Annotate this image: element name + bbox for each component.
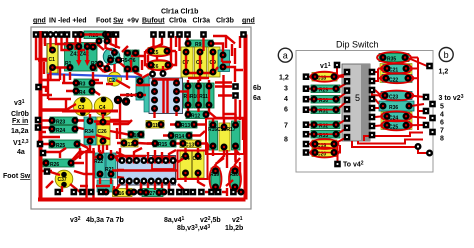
svg-text:R35: R35 (387, 57, 396, 63)
wire x120 long (119, 100, 121, 131)
svg-text:Clr0a: Clr0a (169, 17, 187, 24)
capacitor C6 (148, 62, 171, 71)
resistor R13 (176, 121, 197, 129)
svg-text:8b,v33,v43: 8b,v33,v43 (177, 224, 210, 232)
capacitor C4 (94, 97, 113, 116)
wire y118 right run (214, 117, 244, 119)
resistor R25 (49, 140, 80, 149)
wire top stub IN (44, 35, 46, 47)
wire IC inner loop (152, 157, 174, 169)
resistor R4 (74, 88, 94, 97)
resistor R10 (194, 83, 204, 108)
wire R8 col tops (188, 78, 209, 86)
IC U2 pin pads (119, 157, 177, 185)
wire ring R19 (210, 166, 222, 192)
svg-text:3: 3 (284, 86, 288, 93)
wire clr0a (148, 35, 162, 52)
wire right top (213, 36, 235, 44)
resistor R23 (50, 117, 77, 126)
pad row top edge (33, 31, 247, 38)
capacitor C37 (55, 170, 73, 188)
resistor R17 (208, 121, 240, 150)
svg-text:8: 8 (440, 136, 444, 143)
wire across U1 left y86 (138, 84, 150, 86)
wire mid run y100 (42, 100, 66, 110)
wire diag to IC (113, 155, 124, 178)
svg-text:Foot Sw: Foot Sw (96, 17, 124, 24)
board outline (31, 27, 251, 209)
wire R36 out (411, 104, 426, 111)
capacitor C14 (180, 151, 192, 178)
svg-text:1a,2a: 1a,2a (11, 128, 29, 135)
wire bottom joins (114, 191, 228, 193)
svg-text:C1: C1 (49, 57, 56, 63)
svg-text:R14: R14 (175, 134, 184, 140)
wire y152 run (42, 137, 95, 158)
wire stub x67 (66, 35, 68, 48)
transistor teal block (136, 77, 148, 100)
wire bufout run (152, 35, 154, 51)
wire stub x105 (106, 35, 113, 51)
wire C37 tail (46, 181, 62, 192)
capacitor C21 (383, 65, 410, 74)
svg-text:R24: R24 (56, 128, 65, 134)
wire R9 right (213, 44, 223, 53)
wire right column vertical (417, 58, 419, 131)
wire R25 ends (40, 144, 88, 148)
wire C1 feed (49, 35, 51, 53)
svg-text:Dip Switch: Dip Switch (336, 40, 379, 50)
svg-text:1,2: 1,2 (279, 75, 289, 82)
capacitor C16 (113, 189, 133, 198)
wire -led stub (56, 35, 66, 45)
wire C13 right (201, 144, 208, 151)
wire Q1 lower cluster (96, 64, 112, 72)
capacitor C3 (74, 97, 93, 116)
wire y152 to IC (116, 152, 129, 160)
wire R35 out (407, 58, 427, 67)
pads right of C4 (114, 96, 130, 106)
svg-text:6a: 6a (253, 95, 261, 102)
wire ring C25 (381, 120, 412, 130)
component pads (43, 31, 240, 196)
wire R34 C26 verticals (90, 114, 103, 158)
pad column left of rows (303, 73, 310, 155)
zener Z42 body (85, 49, 91, 66)
wire ground loop left (39, 31, 43, 200)
wire y120 mid (96, 120, 120, 124)
zener Z41 body (76, 49, 82, 66)
wire x48 vertical (48, 74, 71, 99)
yellow backing C24 C25 (381, 112, 412, 130)
svg-text:7: 7 (440, 128, 444, 135)
dip panel outline (296, 51, 433, 173)
svg-text:C26: C26 (98, 129, 107, 135)
wire IC through (112, 169, 178, 171)
capacitor C25 (383, 122, 410, 131)
op-amp U1 footprint (149, 78, 183, 114)
resistor R33 (311, 131, 340, 140)
capacitor C18 (312, 73, 337, 82)
wire R3 R4 left (62, 83, 103, 95)
resistor R3 (74, 79, 94, 88)
svg-text:R15: R15 (158, 142, 167, 148)
wire stub x75 (74, 35, 76, 51)
capacitor C7 (181, 47, 193, 77)
wire R8 col bottoms (188, 105, 216, 118)
svg-text:6b: 6b (253, 85, 261, 92)
svg-text:6: 6 (440, 120, 444, 127)
capacitor teal right of C9 (218, 50, 230, 72)
wire To v4 (337, 143, 339, 161)
resistor R9 (186, 40, 213, 48)
wire left pads column (38, 87, 46, 164)
svg-text:R4: R4 (79, 90, 86, 96)
wire R8 R10 R11 through (188, 86, 209, 105)
wire v1 feed (337, 68, 344, 77)
wire y56 run (131, 56, 145, 76)
svg-text:gnd: gnd (33, 17, 46, 24)
dip body pin pads left (344, 69, 351, 141)
svg-text:Clr3a: Clr3a (193, 17, 211, 24)
transistor Q1 (103, 48, 120, 65)
svg-text:5: 5 (440, 104, 444, 111)
wire y171 run (42, 171, 95, 174)
wire x227 x234 verticals (227, 118, 243, 196)
wire +led stub (62, 35, 71, 51)
wire ring C18 (311, 72, 339, 82)
svg-text:b: b (444, 50, 449, 60)
wire ring C21 (381, 64, 412, 74)
wire stub x80 (80, 35, 85, 51)
capacitor C20 (312, 149, 337, 158)
wire x120 vertical (119, 131, 121, 159)
wire y171 left (49, 172, 80, 193)
wire ring C23 (380, 91, 414, 101)
svg-text:8a,v41: 8a,v41 (164, 216, 185, 224)
resistor R29 (311, 85, 340, 94)
svg-text:To v42: To v42 (343, 161, 364, 169)
wire R19 R20 (216, 158, 241, 193)
wire Q1 branches (84, 44, 128, 52)
wire ring C20 (311, 148, 339, 158)
resistor R27 (142, 189, 163, 198)
pad row bottom edge (55, 189, 245, 196)
wire IC bottom pins (127, 182, 169, 190)
op-amp IC U2 (118, 156, 176, 186)
wire U1 tee (152, 80, 179, 114)
capacitor C2 (108, 72, 122, 86)
resistor R35 (379, 54, 409, 63)
wire C3 C4 through (62, 110, 118, 113)
resistor R14 (169, 132, 192, 140)
wire ring R35 (377, 52, 411, 63)
wire y80 bar (42, 79, 48, 81)
wire y110 bar (42, 108, 66, 111)
svg-text:v22,5b: v22,5b (200, 216, 221, 224)
svg-text:R3: R3 (79, 82, 86, 88)
svg-text:4: 4 (440, 112, 444, 119)
wire C14 C15 pins (186, 148, 206, 186)
wire R22 R21 tops (100, 150, 111, 184)
teal column left of U1 (144, 76, 149, 112)
wire ring C19 (311, 139, 339, 149)
svg-text:R5•R6: R5•R6 (121, 58, 136, 64)
resistor R15 (153, 140, 176, 148)
wire mid diag (42, 95, 76, 132)
svg-text:3 to v23: 3 to v23 (439, 94, 464, 102)
wire R1 R2 bottom (70, 72, 99, 80)
resistor R16 (209, 121, 218, 150)
svg-text:R36: R36 (389, 105, 398, 111)
wire C26 to C12 verticals (99, 128, 117, 152)
svg-text:gnd: gnd (242, 17, 255, 24)
wire R28 link (81, 33, 108, 35)
wire right side verticals (222, 36, 243, 70)
wire bottom right runs (352, 133, 427, 154)
wire ring C14 C15 (178, 151, 208, 180)
wire R16 C10 R17 tops (213, 114, 236, 126)
dip body pin pads right (369, 69, 376, 139)
yellow backing C21 C22 (380, 64, 412, 83)
resistor R24 (50, 126, 77, 135)
capacitor C26 (97, 117, 110, 145)
svg-text:Foot Sw: Foot Sw (3, 173, 31, 180)
wire x226 vertical (224, 36, 241, 120)
wire x171 (170, 35, 172, 66)
wire C7 C8 C9 through (186, 52, 213, 72)
right output pads (415, 63, 436, 157)
wire ring C24 (381, 111, 412, 121)
svg-text:Clr3b: Clr3b (216, 17, 234, 24)
svg-text:5: 5 (355, 93, 360, 103)
svg-text:4b,3a 7a 7b: 4b,3a 7a 7b (86, 217, 124, 224)
resistor R26 (43, 159, 74, 168)
wire right pads 6b 6a (224, 85, 232, 87)
wire C23 out (410, 96, 424, 98)
wire bottom y186 (80, 185, 110, 187)
wire IC bottom stubs (155, 181, 169, 190)
svg-text:C37: C37 (58, 177, 67, 183)
wire C7 C8 bottoms (186, 67, 218, 81)
svg-text:R34: R34 (85, 129, 94, 135)
pads 6b 6a (232, 83, 239, 99)
svg-text:Bufout: Bufout (142, 17, 165, 24)
wire C1 bottom link (53, 66, 71, 68)
resistor block R1 R2 with zeners Z41 Z42 (65, 43, 98, 72)
wire left of R3 verticals (44, 62, 64, 83)
resistor R8 (184, 83, 194, 108)
capacitor C1 (47, 44, 58, 73)
wire C21 C22 out (408, 69, 418, 79)
resistor R19 (210, 168, 220, 190)
wire C16 up (114, 182, 141, 192)
resistor R31 (311, 106, 340, 115)
wire U1 right link (180, 90, 188, 92)
wire right bottom (226, 148, 240, 186)
wire stub x116 (115, 35, 117, 49)
capacitor C19 (312, 140, 337, 149)
resistor R22 (94, 153, 105, 178)
wire C24 C25 out (408, 116, 426, 125)
wire left of connector verticals (127, 60, 142, 80)
wire x203 (202, 35, 204, 52)
wire blue jumper (48, 74, 142, 77)
wire x86 x93 verticals (70, 148, 94, 199)
wire ring C6 (147, 60, 173, 70)
wire ring R20 (229, 166, 241, 192)
svg-text:Clr0b: Clr0b (11, 111, 29, 118)
wire x187 (186, 35, 188, 44)
resistor R21 (105, 153, 116, 178)
pad column left edge (35, 84, 51, 175)
wire R26 ends (40, 152, 84, 163)
capacitor C12 (121, 139, 138, 148)
pads Q1 lower (97, 61, 111, 73)
capacitor C22 (382, 75, 412, 84)
wire C2 links (106, 80, 136, 95)
pads below top row center (96, 38, 111, 45)
wire R16 C10 R17 bottoms (213, 147, 236, 162)
svg-text:6: 6 (284, 107, 288, 114)
svg-text:4: 4 (284, 96, 288, 103)
left component pads (311, 73, 340, 156)
resistor R32 (311, 121, 340, 130)
connector pin pads (149, 70, 180, 112)
wire top y44 bar (62, 43, 80, 45)
wire C12 links (117, 142, 153, 145)
wire C1 side (38, 38, 47, 61)
wire x179 (178, 35, 180, 52)
resistor R30 (311, 96, 340, 105)
svg-text:8: 8 (284, 137, 288, 144)
wire ring C22 (381, 73, 414, 83)
wire left row through lines (309, 77, 336, 153)
resistor R34 (84, 117, 96, 145)
svg-text:4a: 4a (17, 149, 25, 156)
resistor R28 (84, 31, 106, 39)
resistors R5 R6 (121, 50, 139, 72)
svg-text:Clr1a Clr1b: Clr1a Clr1b (161, 9, 198, 16)
svg-text:R12: R12 (191, 114, 200, 120)
capacitor C15 (193, 151, 205, 178)
wire ring C5 (147, 46, 172, 56)
wire ground loop right (244, 35, 248, 200)
wire right bracket rows 1 2 (375, 69, 385, 82)
teal block lower (97, 180, 113, 192)
wire y156 left of IC (116, 155, 146, 157)
capacitor C11 (146, 121, 164, 130)
wire stub x110 (111, 35, 121, 49)
capacitor C10 (219, 123, 230, 151)
svg-text:+9v: +9v (127, 17, 139, 24)
right component pads (380, 54, 413, 129)
svg-text:a: a (283, 51, 288, 61)
wire R25 R26 join (80, 148, 88, 159)
svg-text:Fx in: Fx in (12, 118, 28, 125)
wire C23 long (372, 88, 381, 96)
wire bufout area verticals (148, 36, 176, 62)
wire right links from dip (375, 90, 383, 126)
wire y93 right (215, 83, 236, 126)
svg-text:1b,2b: 1b,2b (225, 225, 243, 232)
node a (278, 48, 292, 62)
resistor R36 (379, 101, 414, 111)
wire IC top pins (127, 148, 176, 164)
svg-text:R23: R23 (56, 120, 65, 126)
wire into connector top (136, 74, 149, 95)
wire R13 R14 R15 ends (147, 125, 205, 144)
wire C5 C6 left (145, 51, 176, 65)
wire ground loop bottom (38, 198, 246, 202)
wire U1 pin stubs (153, 66, 177, 118)
node b (439, 48, 453, 62)
svg-text:IN -led +led: IN -led +led (49, 17, 87, 24)
svg-text:R13: R13 (181, 123, 190, 129)
wire top stub gnd (36, 35, 47, 60)
capacitor C23 (381, 92, 412, 101)
wire teal cap right (223, 67, 235, 82)
svg-text:7: 7 (284, 123, 288, 130)
wire ring R16 C10 R17 (206, 119, 244, 155)
capacitor C5 (148, 48, 170, 57)
wire IC corners (114, 158, 186, 192)
resistor R18 (128, 131, 144, 139)
wire y121 run (94, 120, 130, 122)
wire C1 bottom out (42, 68, 60, 80)
wire right vertical x222 (222, 48, 235, 64)
wire R17 bottom down (234, 150, 236, 162)
wire left row links (308, 74, 347, 77)
capacitor C13 (180, 140, 201, 149)
capacitor C8 (195, 47, 207, 77)
resistor R11 (184, 83, 215, 108)
capacitor C24 (383, 113, 410, 122)
resistor R20 (230, 168, 240, 190)
dip switch body S1 (342, 64, 370, 141)
pad To v4 (334, 161, 341, 168)
wire R23 R24 left (41, 121, 84, 130)
svg-text:R26: R26 (50, 162, 59, 168)
pad v1 (334, 62, 341, 69)
capacitor C9 (208, 47, 220, 77)
wire mid y135 (96, 120, 132, 139)
resistor R12 (186, 111, 208, 120)
svg-text:1,2: 1,2 (439, 69, 449, 76)
wire Q1 legs (104, 62, 126, 72)
